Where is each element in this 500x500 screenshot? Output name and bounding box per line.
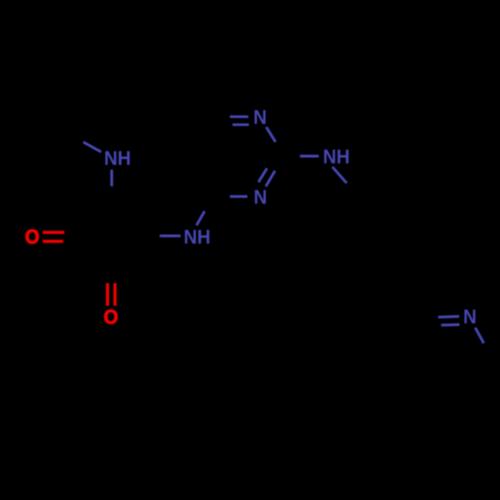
node O bottom ketone label <box>104 310 117 324</box>
wire C4sq-NH half-bond (center NH left) <box>160 235 181 238</box>
wire C2=O right half-bond <box>113 283 116 306</box>
wire C4-N3 half-bond (pyrimidine bottom-left) <box>230 195 248 198</box>
wire methyl-N half-bond (top-left NH) <box>83 142 101 152</box>
node N pyridine label <box>464 310 475 324</box>
wire C1=O upper half-bond (left ketone) <box>43 231 65 234</box>
wire C1=O lower half-bond <box>43 240 63 243</box>
node NH center amino label <box>185 230 209 244</box>
node N pyrimidine N3 label <box>255 190 266 204</box>
wire C2-NH half-bond (right NH left) <box>300 155 319 158</box>
node N pyrimidine N1 label <box>255 110 266 124</box>
wire C=N main half-bond (pyridine) <box>438 315 459 318</box>
wire C2=O left half-bond (bottom ketone) <box>106 283 109 306</box>
node O left ketone label <box>26 230 39 244</box>
wire N1-C2 half-bond <box>266 127 275 142</box>
wire C2=N3 inner half-bond <box>258 168 267 182</box>
node NH methylamino label <box>105 151 129 165</box>
wire C=N inner half-bond (pyridine) <box>441 323 459 326</box>
wire N-C3 half-bond (below top-left NH) <box>110 170 113 187</box>
wire N-C half-bond (pyridine down-right) <box>475 328 484 344</box>
wire C6=N1 inner half-bond <box>233 123 249 126</box>
wire C6=N1 main half-bond (pyrimidine top) <box>230 115 249 118</box>
node NH right amino label <box>324 150 348 164</box>
wire NH-C4pyrimidine half-bond <box>197 211 205 225</box>
wire C2=N3 main half-bond <box>266 171 275 187</box>
wire NH-CH2 half-bond (right NH down) <box>332 167 346 183</box>
